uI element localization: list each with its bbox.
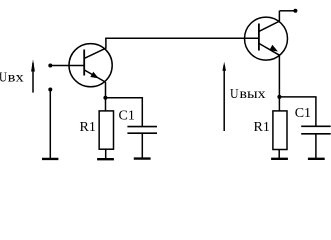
transistor Q2 (245, 11, 288, 60)
wire: Q2 emitter down to R1 (278, 55, 280, 111)
ground (left R1) (97, 158, 114, 160)
svg-text:вх: вх (8, 70, 24, 85)
svg-text:R1: R1 (80, 120, 96, 135)
svg-text:U: U (230, 87, 239, 102)
ground (right R1) (271, 158, 288, 160)
wire: Q1 emitter down to R1 (105, 82, 107, 111)
svg-text:U: U (0, 70, 7, 85)
svg-text:C1: C1 (119, 109, 135, 124)
wire: left junction to C1 (105, 98, 142, 126)
arrow: Uвх polarity (31, 59, 35, 92)
wire: input terminal to Q1 base (50, 65, 84, 67)
resistor R1 (left) (99, 111, 113, 149)
wire: R1 bottom lead (left) (105, 149, 107, 158)
capacitor C1 (right) (301, 126, 331, 134)
svg-text:вых: вых (240, 87, 266, 102)
ground (input) (42, 158, 58, 160)
svg-text:C1: C1 (295, 106, 311, 121)
wire: C1 bottom lead (right) (315, 134, 317, 158)
wire: Q1 collector to Q2 base (105, 37, 259, 39)
ground (right C1) (308, 158, 325, 160)
arrow: Uвых polarity (222, 62, 226, 131)
ground (left C1) (134, 157, 151, 159)
capacitor C1 (left) (127, 127, 157, 134)
transistor Q1 (69, 38, 112, 87)
node: output terminal (293, 9, 297, 13)
svg-text:R1: R1 (254, 120, 270, 135)
wire: right junction to C1 (279, 97, 316, 126)
node: left emitter junction (103, 96, 107, 100)
wire: R1 bottom lead (right) (278, 150, 280, 159)
wire: C1 bottom lead (left) (141, 133, 143, 158)
wire: Q2 collector to output terminal (280, 10, 296, 12)
node: input lower terminal (48, 88, 52, 92)
node: right emitter junction (277, 95, 281, 99)
node: input upper terminal (48, 64, 52, 68)
wire: input lower terminal to ground (49, 90, 51, 159)
resistor R1 (right) (273, 111, 287, 150)
